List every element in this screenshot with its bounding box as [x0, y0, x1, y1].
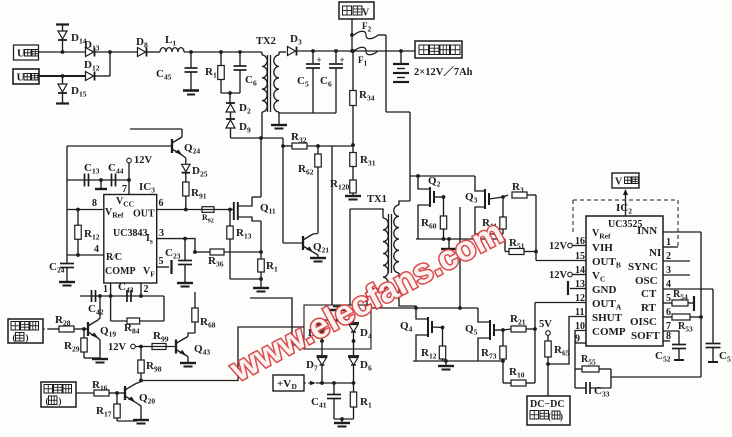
svg-text:SOFT: SOFT — [631, 330, 660, 342]
svg-text:5V: 5V — [539, 319, 552, 330]
svg-text:CT: CT — [641, 288, 657, 300]
svg-text:11: 11 — [575, 307, 584, 318]
svg-text:SHUT: SHUT — [592, 312, 623, 324]
svg-text:TX2: TX2 — [256, 36, 276, 47]
svg-text:): ) — [59, 396, 62, 406]
svg-text:2×12V／7Ah: 2×12V／7Ah — [414, 65, 473, 78]
svg-text:R⁄C: R⁄C — [106, 252, 122, 263]
svg-text:DC−DC: DC−DC — [530, 399, 565, 410]
svg-text:+: + — [340, 55, 345, 65]
svg-text:2: 2 — [144, 284, 149, 295]
svg-text:TX1: TX1 — [367, 194, 387, 205]
svg-text:OSC: OSC — [635, 275, 658, 287]
svg-text:8: 8 — [92, 198, 97, 209]
svg-text:): ) — [560, 412, 563, 422]
svg-text:GND: GND — [592, 284, 617, 296]
svg-text:(: ( — [46, 396, 49, 406]
svg-text:12V: 12V — [549, 270, 568, 281]
svg-text:RT: RT — [641, 302, 657, 314]
svg-text:COMP: COMP — [105, 266, 136, 277]
svg-text:OISC: OISC — [630, 316, 657, 328]
svg-text:12V: 12V — [549, 241, 568, 252]
svg-text:1: 1 — [103, 284, 108, 295]
svg-text:SYNC: SYNC — [628, 261, 658, 273]
svg-text:3: 3 — [159, 228, 164, 239]
svg-text:OUT: OUT — [133, 209, 155, 220]
svg-text:VIH: VIH — [592, 242, 613, 254]
svg-text:7: 7 — [122, 184, 127, 195]
svg-text:V: V — [615, 177, 623, 188]
svg-text:12V: 12V — [108, 342, 127, 353]
svg-text:15: 15 — [575, 251, 585, 262]
svg-text:(: ( — [13, 333, 16, 343]
svg-text:U: U — [17, 72, 25, 84]
svg-text:6: 6 — [159, 198, 164, 209]
svg-text:INN: INN — [637, 225, 657, 237]
svg-text:+: + — [317, 55, 322, 65]
svg-text:D: D — [292, 382, 298, 391]
svg-text:NI: NI — [649, 247, 661, 259]
svg-text:U: U — [17, 48, 25, 60]
svg-text:12V: 12V — [134, 155, 153, 166]
svg-text:COMP: COMP — [592, 326, 626, 338]
svg-text:+V: +V — [277, 378, 291, 390]
svg-text:(: ( — [548, 412, 551, 422]
svg-text:V: V — [362, 8, 370, 19]
svg-text:12: 12 — [575, 293, 585, 304]
svg-text:4: 4 — [94, 244, 99, 255]
svg-text:UC3843: UC3843 — [113, 228, 147, 239]
svg-text:): ) — [26, 333, 29, 343]
svg-text:5: 5 — [159, 256, 164, 267]
